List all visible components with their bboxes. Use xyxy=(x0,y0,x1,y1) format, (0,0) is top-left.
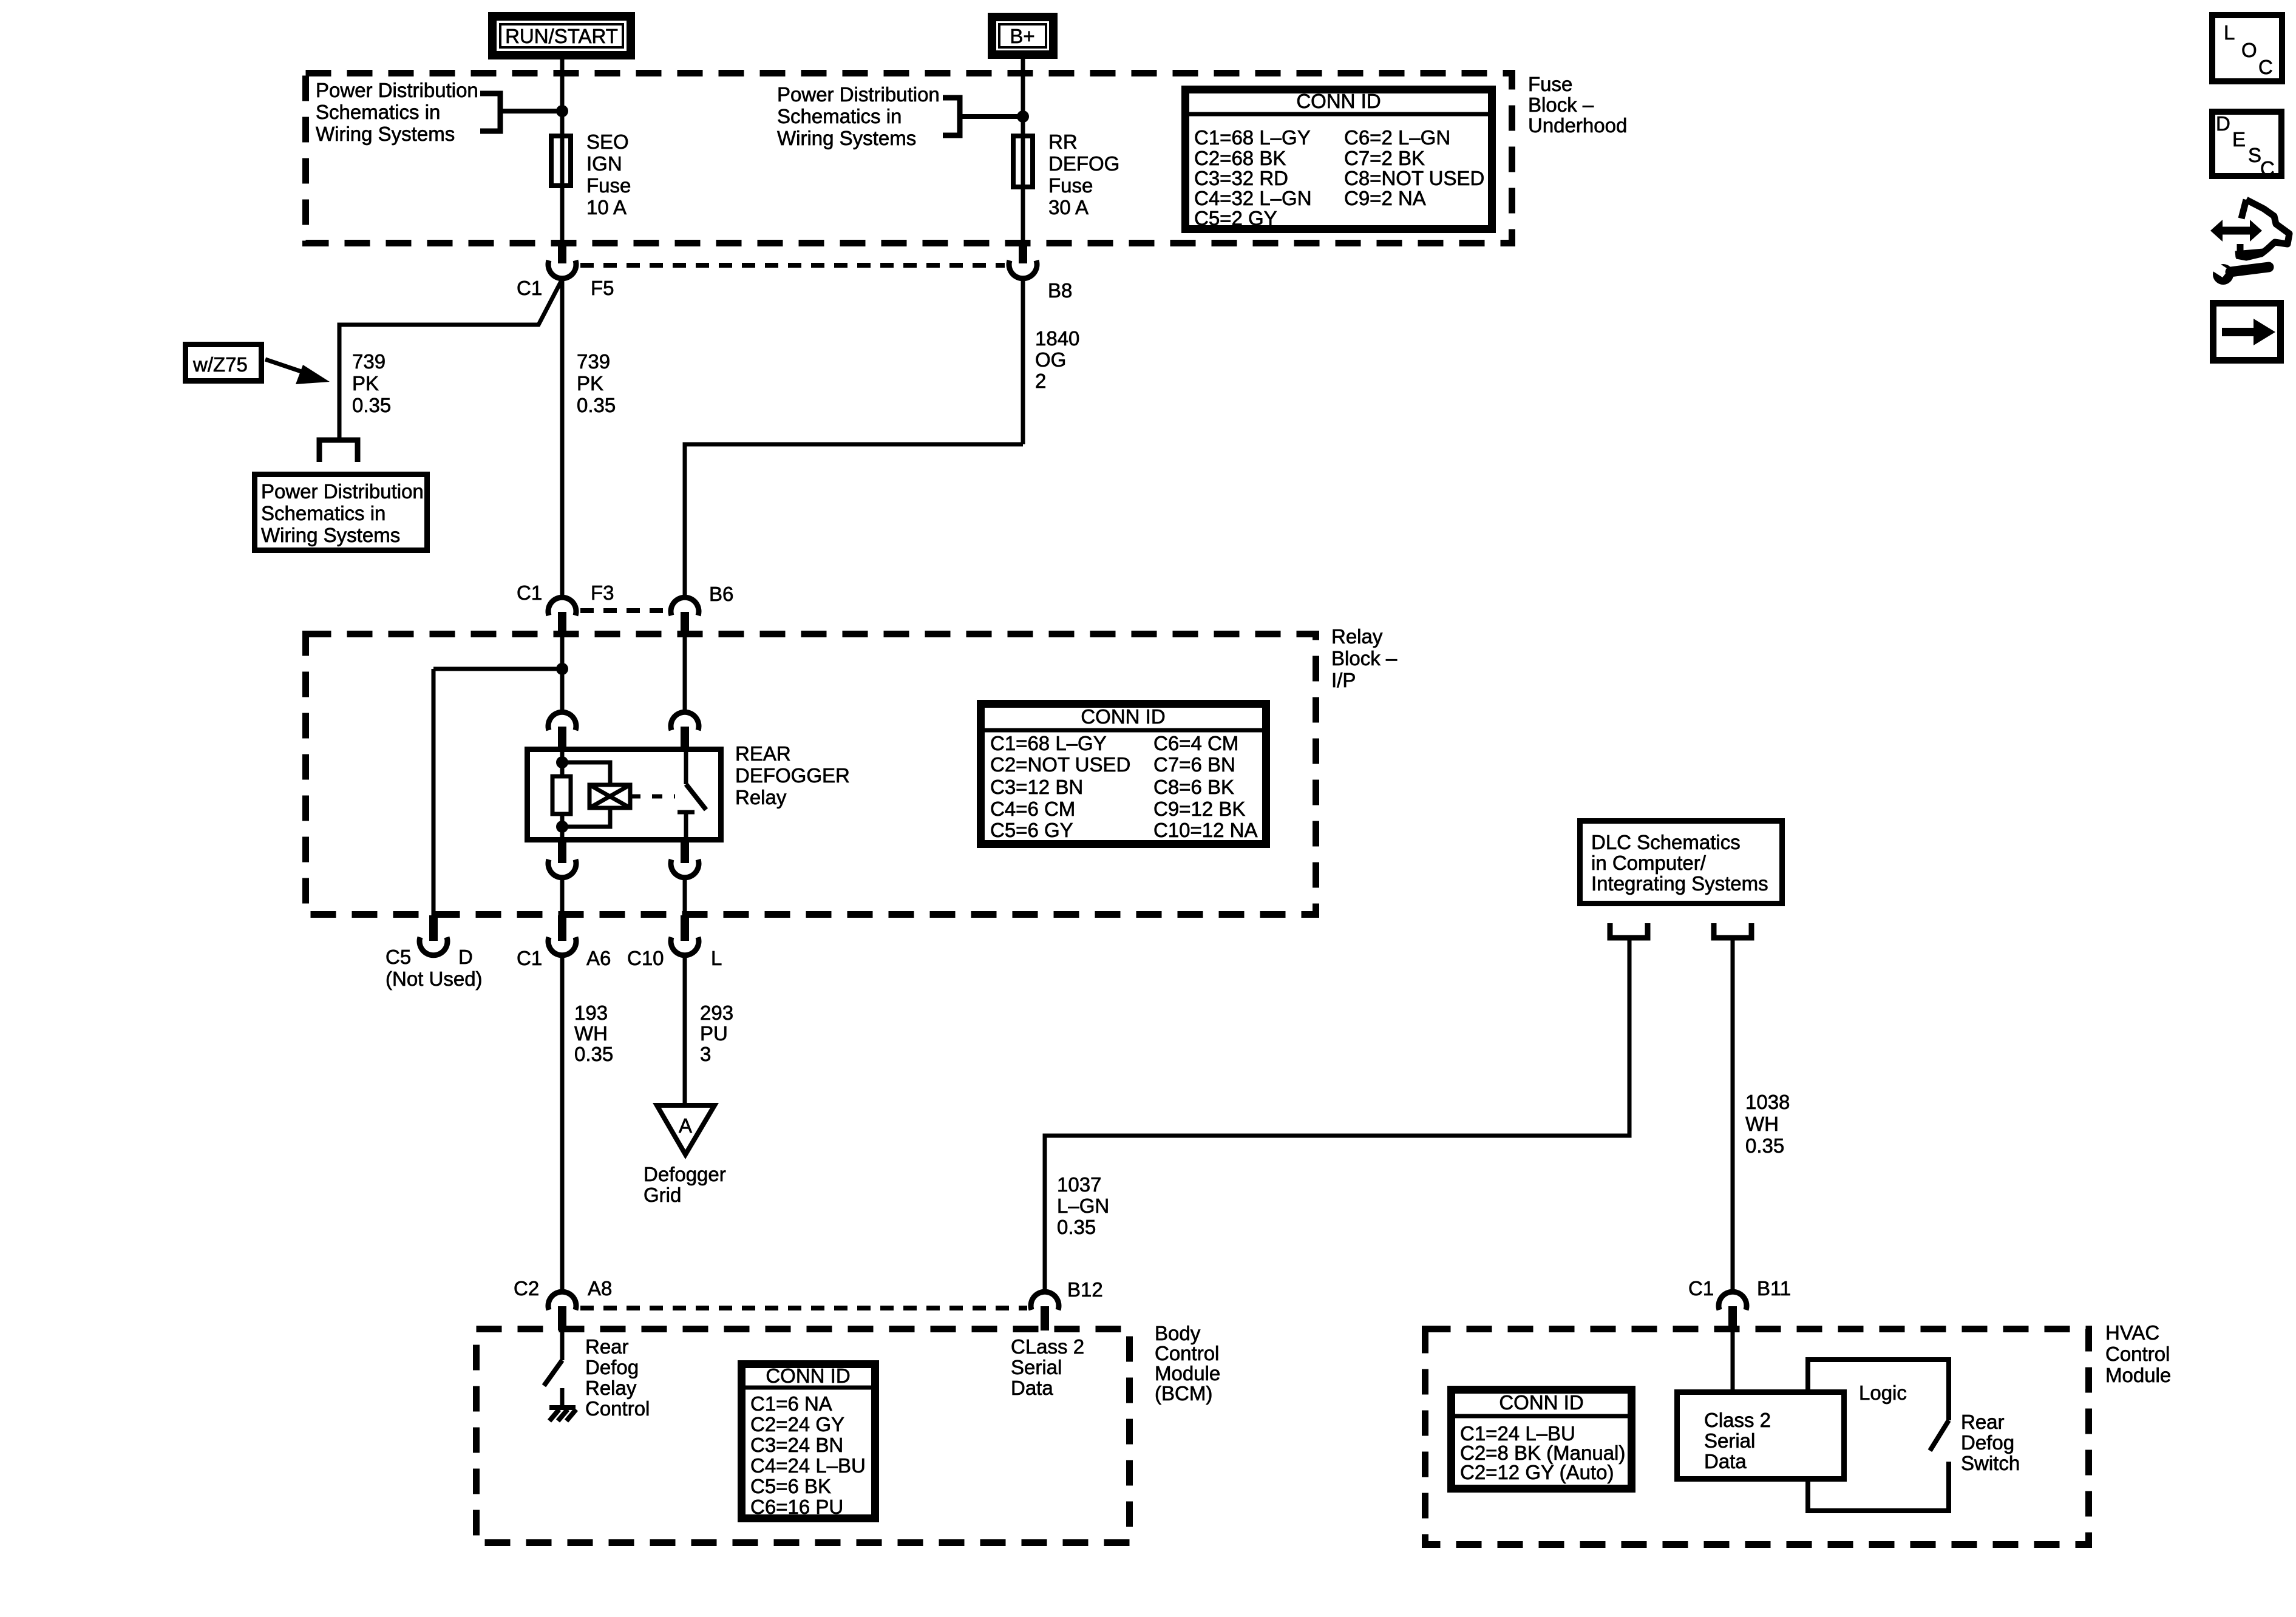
svg-text:IGN: IGN xyxy=(586,152,622,175)
svg-text:C2=24 GY: C2=24 GY xyxy=(750,1413,844,1436)
svg-text:Serial: Serial xyxy=(1704,1429,1755,1452)
svg-text:C10: C10 xyxy=(627,947,664,969)
svg-text:Data: Data xyxy=(1011,1377,1053,1399)
svg-text:A8: A8 xyxy=(588,1277,612,1300)
svg-text:Relay: Relay xyxy=(735,786,787,808)
svg-text:Power Distribution: Power Distribution xyxy=(777,83,940,106)
svg-text:D: D xyxy=(2216,112,2230,135)
svg-text:SEO: SEO xyxy=(586,131,629,153)
svg-text:L: L xyxy=(2224,21,2235,44)
svg-text:Class 2: Class 2 xyxy=(1704,1409,1771,1431)
svg-text:C4=32 L–GN: C4=32 L–GN xyxy=(1194,187,1312,209)
svg-text:1037: 1037 xyxy=(1057,1173,1101,1196)
svg-text:Schematics in: Schematics in xyxy=(316,101,440,123)
svg-text:Data: Data xyxy=(1704,1450,1747,1473)
svg-text:0.35: 0.35 xyxy=(352,394,391,416)
svg-text:C1=68 L–GY: C1=68 L–GY xyxy=(1194,126,1311,149)
svg-text:C1: C1 xyxy=(517,277,542,299)
svg-text:Control: Control xyxy=(2105,1343,2170,1365)
svg-text:PK: PK xyxy=(352,372,379,395)
svg-text:Fuse: Fuse xyxy=(586,174,631,197)
svg-text:C8=6 BK: C8=6 BK xyxy=(1153,776,1234,798)
svg-text:Relay: Relay xyxy=(1331,625,1383,648)
svg-text:Block –: Block – xyxy=(1528,93,1594,116)
svg-text:Rear: Rear xyxy=(585,1335,629,1358)
svg-text:C3=24 BN: C3=24 BN xyxy=(750,1434,843,1456)
svg-text:C4=24 L–BU: C4=24 L–BU xyxy=(750,1454,866,1477)
svg-text:0.35: 0.35 xyxy=(574,1043,613,1065)
svg-text:Logic: Logic xyxy=(1859,1381,1907,1404)
svg-text:Module: Module xyxy=(1155,1362,1220,1385)
svg-text:C2=12 GY (Auto): C2=12 GY (Auto) xyxy=(1460,1461,1614,1483)
svg-text:w/Z75: w/Z75 xyxy=(192,353,248,376)
svg-text:C6=4 CM: C6=4 CM xyxy=(1153,732,1238,754)
svg-text:DEFOGGER: DEFOGGER xyxy=(735,764,850,787)
svg-text:Wiring Systems: Wiring Systems xyxy=(777,127,916,149)
svg-text:(BCM): (BCM) xyxy=(1155,1382,1212,1405)
svg-text:B12: B12 xyxy=(1067,1278,1103,1301)
svg-text:HVAC: HVAC xyxy=(2105,1321,2159,1344)
svg-text:739: 739 xyxy=(577,350,610,373)
svg-text:C6=2 L–GN: C6=2 L–GN xyxy=(1344,126,1450,149)
svg-text:3: 3 xyxy=(700,1043,711,1065)
svg-text:C9=12 BK: C9=12 BK xyxy=(1153,798,1245,820)
svg-text:DLC Schematics: DLC Schematics xyxy=(1591,831,1741,853)
svg-text:C8=NOT USED: C8=NOT USED xyxy=(1344,167,1484,189)
svg-text:Power Distribution: Power Distribution xyxy=(316,79,478,101)
svg-text:in Computer/: in Computer/ xyxy=(1591,852,1707,874)
svg-text:Switch: Switch xyxy=(1961,1452,2020,1474)
svg-text:C7=6 BN: C7=6 BN xyxy=(1153,753,1235,776)
svg-text:C7=2 BK: C7=2 BK xyxy=(1344,147,1425,169)
svg-text:C1: C1 xyxy=(517,581,542,604)
svg-text:Wiring Systems: Wiring Systems xyxy=(316,123,455,145)
svg-text:CONN ID: CONN ID xyxy=(1499,1391,1583,1414)
svg-text:CLass 2: CLass 2 xyxy=(1011,1335,1084,1358)
svg-text:E: E xyxy=(2232,128,2246,151)
svg-text:C3=32 RD: C3=32 RD xyxy=(1194,167,1288,189)
svg-text:C9=2 NA: C9=2 NA xyxy=(1344,187,1426,209)
svg-text:L: L xyxy=(711,947,722,969)
svg-text:C5=6 BK: C5=6 BK xyxy=(750,1475,831,1497)
svg-text:Relay: Relay xyxy=(585,1377,637,1399)
svg-text:C: C xyxy=(2258,56,2273,78)
svg-text:D: D xyxy=(458,946,473,968)
svg-text:Control: Control xyxy=(585,1397,650,1420)
svg-text:0.35: 0.35 xyxy=(1057,1216,1096,1238)
svg-text:F3: F3 xyxy=(591,581,614,604)
svg-text:Grid: Grid xyxy=(644,1184,681,1206)
svg-text:WH: WH xyxy=(574,1022,608,1045)
svg-text:RR: RR xyxy=(1048,131,1078,153)
svg-text:Defog: Defog xyxy=(585,1356,639,1378)
svg-text:Body: Body xyxy=(1155,1322,1201,1344)
svg-text:Module: Module xyxy=(2105,1364,2171,1386)
svg-text:C5=2 GY: C5=2 GY xyxy=(1194,207,1277,229)
svg-text:C10=12 NA: C10=12 NA xyxy=(1153,819,1258,841)
svg-text:A: A xyxy=(679,1114,692,1137)
svg-text:CONN ID: CONN ID xyxy=(1296,90,1381,112)
svg-text:Control: Control xyxy=(1155,1342,1219,1364)
svg-text:Integrating Systems: Integrating Systems xyxy=(1591,872,1768,895)
svg-text:193: 193 xyxy=(574,1002,608,1024)
svg-text:B+: B+ xyxy=(1010,25,1034,47)
svg-text:O: O xyxy=(2241,39,2257,61)
svg-text:Fuse: Fuse xyxy=(1528,73,1572,95)
svg-text:I/P: I/P xyxy=(1331,669,1356,691)
svg-text:REAR: REAR xyxy=(735,742,791,765)
svg-text:C5: C5 xyxy=(385,946,411,968)
svg-text:Schematics in: Schematics in xyxy=(777,105,902,127)
svg-text:Fuse: Fuse xyxy=(1048,174,1093,197)
svg-text:L–GN: L–GN xyxy=(1057,1195,1109,1217)
svg-text:PK: PK xyxy=(577,372,603,395)
svg-text:CONN ID: CONN ID xyxy=(766,1364,850,1387)
svg-text:DEFOG: DEFOG xyxy=(1048,152,1119,175)
svg-text:739: 739 xyxy=(352,350,385,373)
svg-text:B6: B6 xyxy=(709,583,733,605)
svg-text:C1: C1 xyxy=(517,947,542,969)
svg-text:C5=6 GY: C5=6 GY xyxy=(990,819,1073,841)
svg-text:293: 293 xyxy=(700,1002,733,1024)
svg-text:Defogger: Defogger xyxy=(644,1163,726,1185)
svg-text:C1=68 L–GY: C1=68 L–GY xyxy=(990,732,1107,754)
svg-text:C3=12 BN: C3=12 BN xyxy=(990,776,1083,798)
svg-text:1038: 1038 xyxy=(1745,1091,1790,1113)
svg-text:C2=68 BK: C2=68 BK xyxy=(1194,147,1286,169)
svg-text:C1: C1 xyxy=(1688,1277,1714,1300)
svg-text:Defog: Defog xyxy=(1961,1431,2014,1454)
svg-text:C2=NOT USED: C2=NOT USED xyxy=(990,753,1130,776)
svg-text:B11: B11 xyxy=(1757,1277,1791,1300)
svg-text:C4=6 CM: C4=6 CM xyxy=(990,798,1075,820)
svg-text:10 A: 10 A xyxy=(586,196,627,219)
svg-text:Serial: Serial xyxy=(1011,1356,1062,1378)
svg-text:(Not Used): (Not Used) xyxy=(385,968,483,990)
svg-text:S: S xyxy=(2248,144,2261,166)
svg-text:CONN ID: CONN ID xyxy=(1081,705,1165,728)
svg-text:OG: OG xyxy=(1035,348,1066,371)
svg-text:C: C xyxy=(2260,157,2275,180)
svg-text:C2: C2 xyxy=(514,1277,539,1300)
svg-text:Underhood: Underhood xyxy=(1528,114,1627,137)
svg-text:WH: WH xyxy=(1745,1113,1779,1135)
svg-text:C6=16 PU: C6=16 PU xyxy=(750,1496,843,1518)
svg-text:0.35: 0.35 xyxy=(577,394,616,416)
svg-text:30 A: 30 A xyxy=(1048,196,1089,219)
svg-text:2: 2 xyxy=(1035,370,1046,392)
svg-text:0.35: 0.35 xyxy=(1745,1134,1784,1157)
svg-text:RUN/START: RUN/START xyxy=(505,25,618,47)
svg-text:Schematics in: Schematics in xyxy=(261,502,385,524)
svg-text:Wiring Systems: Wiring Systems xyxy=(261,524,400,546)
svg-text:PU: PU xyxy=(700,1022,728,1045)
svg-text:C1=6 NA: C1=6 NA xyxy=(750,1392,832,1415)
svg-text:Block –: Block – xyxy=(1331,647,1398,670)
svg-text:Power Distribution: Power Distribution xyxy=(261,480,424,503)
svg-text:B8: B8 xyxy=(1048,279,1072,302)
svg-text:F5: F5 xyxy=(591,277,614,299)
svg-text:A6: A6 xyxy=(586,947,611,969)
svg-text:Rear: Rear xyxy=(1961,1411,2005,1433)
svg-text:1840: 1840 xyxy=(1035,327,1079,350)
